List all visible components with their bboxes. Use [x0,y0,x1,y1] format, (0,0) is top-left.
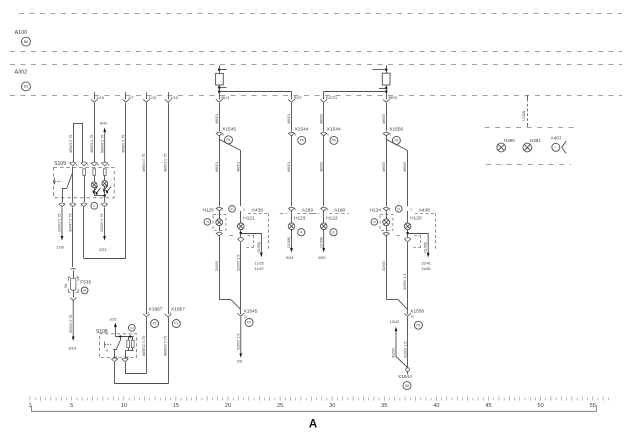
wire 58008 S109 pin 6 up-arrow to 8/43 [103,128,106,163]
svg-text:P2: P2 [153,322,157,326]
S109 wire pin1 to bottom [84,175,86,202]
S109 pin bottom c [81,203,87,204]
connector BR/3 [383,99,390,102]
svg-text:12: 12 [244,315,248,319]
node E6 (A302 circle ref) [21,82,30,91]
svg-text:49001: 49001 [287,162,291,172]
switch module S109 boundary (dashed box) [54,167,115,197]
wire loop 49529 S109 pin L to pin 1 [73,123,75,162]
svg-text:E6: E6 [24,85,28,89]
S109 pin 1 top [81,162,87,163]
svg-text:10: 10 [411,315,415,319]
S108 switch actuator (dashed) [105,344,112,346]
svg-text:X1544: X1544 [327,127,341,133]
svg-text:BR/3: BR/3 [389,96,397,100]
svg-text:31000 1.5: 31000 1.5 [403,342,407,358]
node B6 (A100 circle ref) [21,37,30,46]
svg-text:H123: H123 [294,216,306,222]
connector X1545 bottom [237,313,244,316]
bus line 2 (dashed) [10,51,622,53]
fuse F2 wire [386,65,388,99]
wire 49000 BR/3 to X1550 [386,103,388,131]
svg-text:P4: P4 [227,138,231,142]
svg-text:6A: 6A [83,288,87,292]
node P5 circle ref (a) [298,136,306,144]
svg-text:AM502 0.75: AM502 0.75 [142,336,146,356]
wire 30000 to 8/1A [72,300,75,341]
node C1 circle ref (A439) [229,206,236,213]
S109 pin contact 6 [103,169,106,176]
svg-text:1/15: 1/15 [149,96,156,100]
S108 pin 1/1 [112,358,118,359]
device A439 boundary (dashed) [248,213,269,215]
S108 switch contact [120,337,122,340]
svg-text:A407: A407 [551,136,562,141]
wire X1545 to H125 [219,135,221,206]
node F3 circle ref [128,324,135,331]
svg-text:45: 45 [485,403,491,409]
svg-text:5A: 5A [64,283,68,288]
svg-text:B6: B6 [24,40,28,44]
wire branch to 15/41 11/65 [408,233,429,235]
svg-text:49501 0.75: 49501 0.75 [142,154,146,172]
connector 2/15 [94,92,96,99]
svg-text:49000: 49000 [403,162,407,172]
node P4 circle ref (bottom) [245,319,253,327]
lamp H122 pin [321,207,327,208]
svg-text:D6: D6 [405,384,409,388]
S109 illumination lamp 1 (LED) [94,175,96,182]
S108 internal bus [115,336,133,338]
connector X1545 [216,132,222,133]
svg-text:10/2: 10/2 [110,318,117,322]
svg-text:A439: A439 [252,208,264,214]
fuse F1 node top [218,68,221,71]
svg-text:35: 35 [381,403,387,409]
svg-text:H125: H125 [203,208,215,214]
S109 switch actuator (dashed) [55,181,62,183]
svg-text:31000 1.5: 31000 1.5 [236,334,240,350]
svg-text:40: 40 [433,403,439,409]
svg-text:49001: 49001 [287,114,291,124]
fuse F2 node bottom [385,87,388,90]
svg-text:2/23: 2/23 [99,248,106,252]
H121 pin boundary (small dashed box) [247,235,254,237]
connector X1544 (b) [321,132,327,133]
svg-text:C1: C1 [206,220,210,224]
wire branch X1550 to H120 (diagonal) [386,139,407,150]
resistor S108 b [131,340,134,348]
node S108 bus junction a [119,335,121,337]
lamp H123 [291,211,293,223]
svg-text:P5: P5 [332,139,336,143]
svg-text:49001: 49001 [215,114,219,124]
wire 49500 from 1/T down-loop to S109 pin 3 [125,103,127,258]
svg-text:5: 5 [70,403,73,409]
svg-text:P1: P1 [174,322,178,326]
svg-text:1/T: 1/T [128,96,134,100]
wire AM503 X1967-P1 to S108 [168,317,170,383]
svg-text:15: 15 [173,403,179,409]
wire 31000 to 2/23 [103,208,106,241]
bus line 3 (dashed) [10,64,622,66]
S109 pin bottom b [70,203,76,204]
node junction to R2/TD [385,90,388,93]
lamp H125 boundary (dashed box) [213,214,226,230]
wire X1544 to A190 [323,135,325,206]
node junction below H121 [240,230,242,237]
ruler scale ticks [30,396,608,400]
svg-text:31000: 31000 [392,348,396,358]
svg-text:9/50: 9/50 [318,256,325,260]
svg-text:1/30: 1/30 [57,246,64,250]
lamp H380 [497,143,506,152]
svg-text:BL/4: BL/4 [222,96,230,100]
S109 illumination lamp 2 (LED) [104,175,106,180]
wire 49525 from 2/15 to S109 pin 5 [94,103,96,162]
svg-text:F3: F3 [130,326,134,330]
connector X1550 bottom [404,313,411,316]
node C1 circle ref (A438) [396,206,403,213]
wire branch up-arrow to 13/42 [396,357,408,368]
fuse F535 body [68,277,78,292]
svg-text:P5: P5 [300,139,304,143]
svg-text:A190: A190 [334,208,346,214]
node P5 circle ref (bottom) [414,321,422,329]
wire 49501 from 1/15 to X1967 P1 [168,103,170,314]
svg-text:11/25: 11/25 [255,262,264,266]
device A407 bracket [562,141,567,153]
fuse F1 wire [219,65,221,99]
lamp H120 [407,211,409,223]
svg-text:49500 0.75: 49500 0.75 [121,135,125,153]
svg-text:A100: A100 [15,30,28,36]
connector 1/15 (b) [168,92,170,99]
svg-text:31000 1.5: 31000 1.5 [403,274,407,290]
svg-text:31000 1.5: 31000 1.5 [236,255,240,271]
svg-text:(31000): (31000) [257,242,261,253]
node junction to R2/T [218,90,221,93]
connector X1967 P2 [143,314,150,317]
ruler scale numbers [28,403,595,409]
lamp H125 [219,211,221,219]
svg-text:H380: H380 [504,138,515,143]
wire X1544 to A189 [291,135,293,206]
svg-text:31002 0.75: 31002 0.75 [58,214,62,232]
S109 pin contact 5 [93,169,96,176]
S109 lamp return wire [94,188,96,196]
S109 pin bottom d [102,203,108,204]
boundary dashed segment lower [486,164,571,166]
H120 pin boundary (small dashed box) [414,235,421,237]
S109 pin 6 top [102,162,108,163]
S108 pin 3/2 [122,358,128,359]
svg-text:P5: P5 [394,139,398,143]
svg-text:F535: F535 [80,279,91,285]
node P2 circle ref [151,320,159,328]
switch module S108 boundary (dashed box) [100,334,137,358]
lamp H381 [523,143,532,152]
svg-text:10: 10 [121,403,127,409]
svg-text:X1545: X1545 [222,127,236,133]
wire X1550 to H124 [386,135,388,206]
svg-text:30000 0.75: 30000 0.75 [69,315,73,333]
svg-text:H122: H122 [326,216,338,222]
wire fuse F1 to R2/T [219,91,291,93]
svg-text:C1: C1 [373,220,377,224]
H121 pin below junction [238,238,244,239]
svg-text:13/42: 13/42 [390,320,400,324]
svg-text:(31000): (31000) [319,237,323,248]
connector 1/15 (a) [146,92,148,99]
svg-text:R2/T: R2/T [294,96,303,100]
wire branch to 11/25 11/47 [241,233,262,235]
svg-text:S109: S109 [54,161,66,167]
lamp H123 pin [289,207,295,208]
svg-text:1/15: 1/15 [170,96,177,100]
lamp H125 pin top [216,207,222,208]
svg-text:2/15: 2/15 [97,96,104,100]
svg-text:(31000): (31000) [287,237,291,248]
svg-text:F: F [93,204,95,208]
connector X1544 (a) [289,132,295,133]
wire 31000 1.5 to 2/6 [239,317,242,358]
lamp H124 [386,211,388,219]
connector BL/4 [216,99,223,102]
bus line A100 (top dashed) [19,13,622,15]
S108 output arrow 10/2 [114,323,117,337]
wire (31000) to 9/24 [290,230,293,253]
wire (31000) to 9/50 [322,230,325,253]
S109 ground ref F circle [91,202,98,209]
node B circle ref [330,229,337,236]
resistor S108 a [127,340,130,348]
connector R2/TD [320,99,327,102]
wire 31000 H124 down [386,235,388,299]
node junction below H120 [407,230,409,237]
device A190 boundary (dashed) [312,213,319,215]
svg-text:A189: A189 [302,208,314,214]
node P5 circle ref (X1550) [392,136,400,144]
wire X1550 to X1644 [407,317,409,368]
lamp H121 [240,211,242,223]
lamp H122 [323,211,325,223]
S109 lamp return node [103,194,106,197]
S108 element return wire [128,348,130,351]
wire H125 elbow to X1545 bottom [219,299,231,301]
connector X1967 P1 [165,314,172,317]
svg-text:H124: H124 [370,208,382,214]
svg-text:49000: 49000 [382,114,386,124]
svg-text:1: 1 [28,403,31,409]
node A circle ref [298,229,305,236]
device A189 boundary (dashed) [280,213,287,215]
svg-text:20: 20 [225,403,231,409]
node 6A circle ref [81,287,88,294]
svg-text:X1644: X1644 [398,374,412,380]
svg-text:49529 0.75: 49529 0.75 [69,135,73,153]
svg-text:A438: A438 [419,208,431,214]
wire branch X1545 to H121 (diagonal) [219,139,241,150]
wire 31000 1.5 H120 to X1550 bottom [407,242,409,314]
svg-text:X1544: X1544 [295,127,309,133]
S109 pin 5 top [91,162,97,163]
node P1 circle ref [172,320,180,328]
svg-text:9/24: 9/24 [286,256,293,260]
svg-text:X1967: X1967 [171,306,185,312]
svg-text:f: f [555,146,556,150]
wire AM502 X1967-P2 to S108 [146,317,148,373]
wire 31000 H125 down [219,235,221,300]
device A438 boundary (dashed) [415,213,436,215]
svg-text:25: 25 [277,403,283,409]
svg-text:R2/TD: R2/TD [326,96,337,100]
svg-text:8/43: 8/43 [100,122,107,126]
connector X1550 [383,132,389,133]
svg-text:31000: 31000 [215,261,219,271]
fuse F2 body [382,73,390,85]
wire H124 elbow to X1550 bottom [386,299,398,301]
svg-text:X1967: X1967 [149,306,163,312]
svg-text:P5: P5 [416,323,420,327]
wire 30047 S109 to F535 [72,208,74,267]
node C1 circle ref (H124) [371,219,378,226]
svg-text:58008 0.75: 58008 0.75 [100,135,104,153]
fuse F1 node bottom [218,86,221,89]
bus line A302 (dashed) [10,95,622,97]
lamp H124 pin top [383,207,389,208]
svg-text:X1550: X1550 [389,127,403,133]
node S108 bus junction b [129,335,131,337]
svg-text:49000: 49000 [319,114,323,124]
svg-text:H381: H381 [530,138,541,143]
connector X1644 socket [406,368,410,372]
svg-text:49000: 49000 [382,162,386,172]
svg-text:31000 0.75: 31000 0.75 [100,214,104,232]
svg-text:-M: -M [105,349,108,353]
svg-text:49501 0.75: 49501 0.75 [164,154,168,172]
svg-text:P4: P4 [247,321,251,325]
svg-text:49001: 49001 [215,162,219,172]
fuse F1 body [216,73,224,85]
fuse F535 pin bottom [70,298,77,301]
svg-text:50: 50 [537,403,543,409]
svg-text:30047 0.75: 30047 0.75 [69,214,73,232]
node C1 circle ref (H125) [204,219,211,226]
svg-text:C1: C1 [230,207,234,211]
svg-text:AM503 0.75: AM503 0.75 [164,336,168,356]
svg-text:11/65: 11/65 [421,267,430,271]
lamp H124 boundary (dashed box) [380,214,393,230]
node D6 circle ref [403,382,411,390]
svg-text:49525 0.75: 49525 0.75 [90,135,94,153]
S109 switch contact [72,167,74,202]
wire 49000 R2/TD to X1544 [323,103,325,131]
svg-text:15/41: 15/41 [421,262,431,266]
S109 pin contact 1 [83,169,86,176]
svg-text:8/1A: 8/1A [69,347,77,351]
fuse F2 node top [385,68,388,71]
svg-text:55: 55 [590,403,596,409]
svg-text:2/6: 2/6 [237,360,242,364]
wire 49001 R2/T to X1544 [291,103,293,131]
S109 pin bottom a [59,203,65,204]
connector 1/T [125,92,127,99]
connector R2/T [288,99,295,102]
svg-text:49001: 49001 [236,162,240,172]
wire 49501 from 1/15 to X1967 P2 [146,103,148,314]
ruler base line [32,406,597,412]
device A407 circle f [552,143,560,151]
H120 pin below junction [405,238,411,239]
wire 49001 BL/4 to X1545 [219,103,221,131]
svg-text:I-CAN: I-CAN [522,110,526,121]
lamp H125 pin bottom [216,232,222,233]
svg-text:C1: C1 [397,207,401,211]
svg-text:B: B [332,230,334,234]
wire fuse F2 to R2/TD [324,91,387,93]
fuse F535 pin top [70,268,76,269]
net I-CAN (dashed stub) [527,95,529,99]
node P4 circle ref [225,136,233,144]
svg-text:H120: H120 [410,216,422,222]
svg-text:11/47: 11/47 [255,267,264,271]
svg-text:H121: H121 [243,216,255,222]
svg-text:31000: 31000 [382,261,386,271]
boundary dashed segment upper [485,127,575,129]
S109 pin L top [70,162,76,163]
wire 31002 to 1/30 [61,208,64,241]
lamp H124 pin bottom [383,232,389,233]
svg-text:A: A [309,419,317,431]
node P5 circle ref (b) [330,136,338,144]
svg-text:(31000): (31000) [424,242,428,253]
svg-text:49000: 49000 [319,162,323,172]
wire 31000 1.5 H121 to X1545 bottom [240,242,242,314]
svg-text:A302: A302 [15,69,28,75]
svg-text:30: 30 [329,403,335,409]
